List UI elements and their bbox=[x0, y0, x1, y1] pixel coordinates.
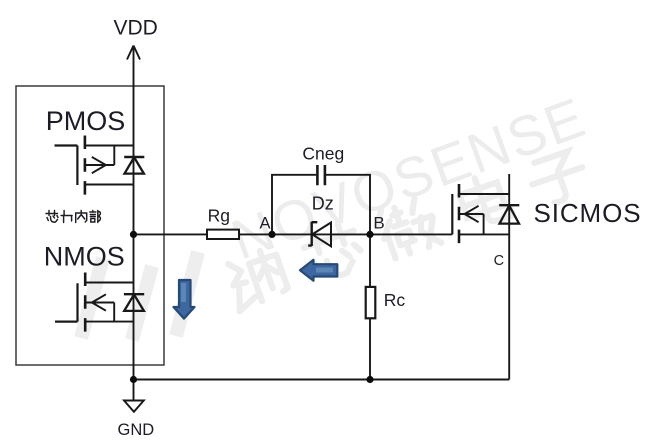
svg-text:Dz: Dz bbox=[312, 193, 334, 213]
svg-text:Rg: Rg bbox=[208, 205, 230, 225]
svg-text:C: C bbox=[494, 253, 504, 269]
svg-text:Cneg: Cneg bbox=[302, 144, 344, 164]
svg-text:B: B bbox=[373, 214, 384, 233]
svg-text:A: A bbox=[260, 214, 271, 232]
svg-text:SICMOS: SICMOS bbox=[534, 198, 642, 228]
svg-text:Rc: Rc bbox=[384, 290, 406, 310]
svg-text:PMOS: PMOS bbox=[46, 106, 126, 136]
svg-text:GND: GND bbox=[118, 421, 155, 439]
svg-text:NMOS: NMOS bbox=[44, 242, 125, 272]
svg-text:VDD: VDD bbox=[114, 17, 158, 40]
